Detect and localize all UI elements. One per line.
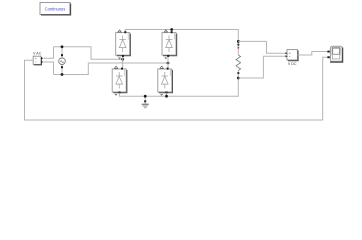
diode block D2 (top-right) [162, 30, 177, 60]
ground G1 [142, 95, 149, 108]
voltage measurement block V AC [33, 51, 43, 65]
AC voltage source Vs [59, 47, 66, 75]
junction dot load top [237, 40, 240, 43]
wire left bridge leg [122, 55, 124, 69]
diode block D1 (top-left) [116, 30, 131, 60]
wire top rail (+ output) [125, 30, 238, 42]
junction dot node B bottom bus [61, 73, 64, 76]
diode block D3 (bottom-left) [112, 66, 127, 96]
wire load bottom to V DC - [238, 56, 285, 78]
svg-text:V AC: V AC [33, 51, 42, 55]
junction dot load bottom [237, 77, 240, 80]
wire bottom AC bus [54, 63, 169, 75]
junction dot bottom bus at D4 [165, 95, 168, 98]
wire load top to V DC + [238, 41, 285, 53]
port square scope in1 [327, 51, 329, 53]
series RLC branch load R [236, 41, 241, 78]
svg-text:Continuous: Continuous [45, 6, 66, 11]
junction dot node B at right leg [167, 62, 170, 65]
powergui block U_pg "Continuous" [40, 3, 71, 15]
wire V AC output v around bottom to scope [25, 57, 328, 120]
junction dot node A top bus [61, 45, 64, 48]
port arrow V AC + [41, 57, 43, 59]
voltage measurement block V DC [286, 50, 299, 66]
wire right bridge leg [167, 55, 169, 69]
wire top AC bus [54, 47, 123, 59]
junction dot node A at left leg [121, 58, 124, 61]
wire V AC - to bottom bus [43, 62, 53, 75]
wire riser thyristor D2 to top rail [171, 30, 173, 33]
port arrow V DC + [286, 52, 288, 54]
port dot Vs + [61, 54, 63, 56]
svg-text:V DC: V DC [288, 62, 297, 66]
port dot Vs - [61, 66, 63, 68]
port arrow V DC - [286, 55, 288, 57]
wire stub D4 to bottom bus [166, 93, 168, 96]
junction dot top rail at D2 [170, 28, 173, 31]
port square scope in2 [327, 56, 329, 58]
wire bottom bus (- output) [120, 78, 239, 96]
diode block D4 (bottom-right) [158, 66, 173, 96]
wire V DC output to scope [297, 52, 327, 56]
port arrow V AC - [41, 61, 43, 63]
wire V AC + to top bus [43, 47, 53, 59]
scope block Scope [327, 46, 342, 62]
